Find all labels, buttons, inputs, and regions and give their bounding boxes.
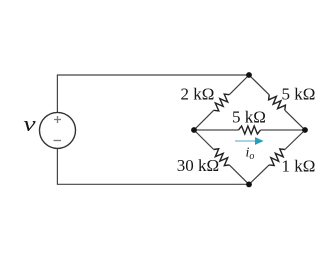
wire top: source to top node — [57, 75, 249, 113]
minus sign — [54, 140, 62, 142]
resistor 1 kOhm — [249, 130, 305, 184]
svg-text:2 kΩ: 2 kΩ — [181, 85, 215, 104]
node right — [302, 127, 308, 133]
resistor 5 kOhm middle — [194, 126, 305, 134]
svg-text:v: v — [23, 112, 36, 136]
svg-text:30 kΩ: 30 kΩ — [177, 156, 219, 175]
node left — [191, 127, 197, 133]
resistor 5 kOhm right — [249, 75, 305, 130]
resistor 30 kOhm — [194, 130, 249, 184]
plus sign — [54, 116, 61, 123]
resistor 2 kOhm — [194, 75, 249, 130]
current arrow i_o — [235, 137, 264, 145]
node top — [246, 72, 252, 78]
svg-text:5 kΩ: 5 kΩ — [282, 85, 316, 104]
svg-text:io: io — [246, 146, 255, 163]
svg-text:1 kΩ: 1 kΩ — [282, 157, 316, 176]
node bottom — [246, 182, 252, 188]
svg-text:5 kΩ: 5 kΩ — [232, 108, 266, 127]
wire bottom: source to bottom node — [57, 148, 249, 184]
voltage source v circle — [40, 112, 76, 148]
